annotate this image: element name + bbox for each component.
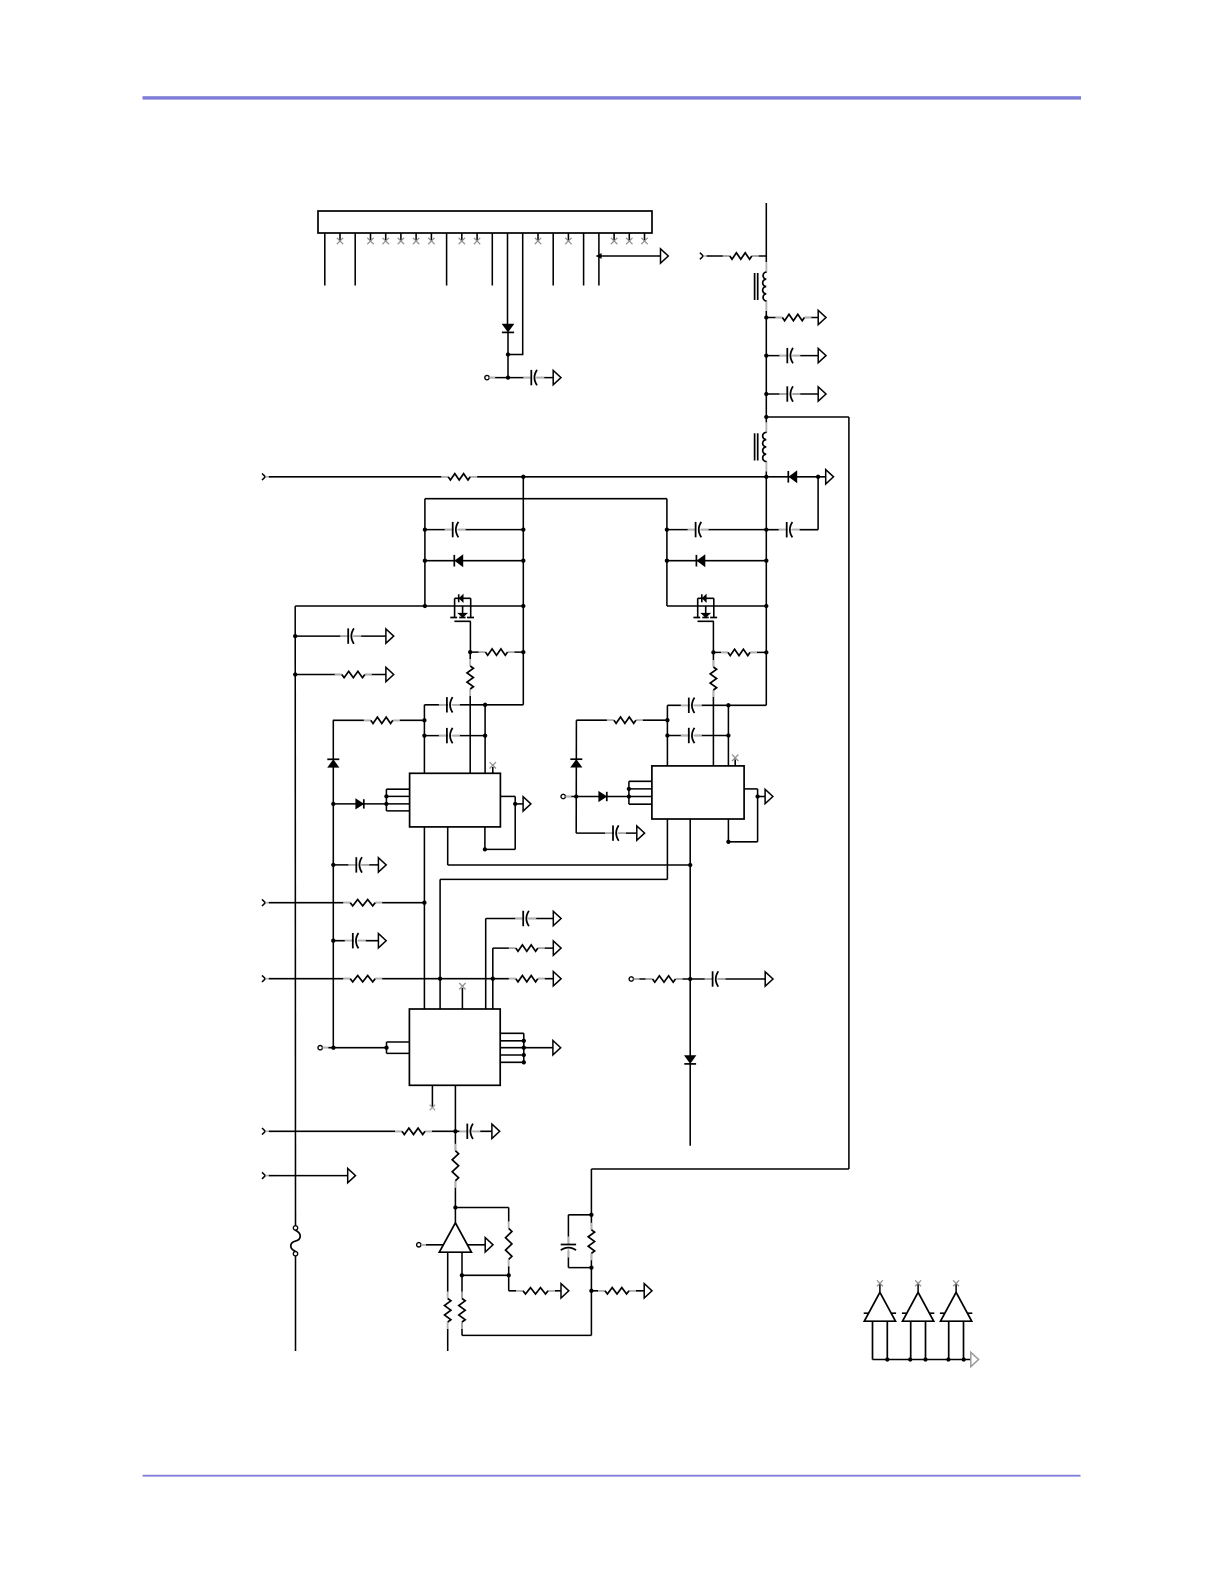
- wire IN3 row: [269, 902, 425, 904]
- pin 6 (no connect): [400, 233, 402, 241]
- resistor R16: [509, 944, 545, 953]
- resistor R14: [509, 974, 545, 983]
- node C5 a: [423, 527, 427, 531]
- pin 13: [507, 233, 509, 324]
- left rail lower: [295, 1256, 297, 1351]
- capacitor C18: [688, 521, 709, 538]
- wire opamp leg1: [447, 1252, 449, 1351]
- U3 nc pin stub: [461, 988, 463, 1009]
- node C12: [293, 634, 297, 638]
- port arrow A22: [485, 1238, 493, 1252]
- node rail-417: [764, 415, 768, 419]
- resistor R17: [451, 1144, 460, 1188]
- pin 21 (no connect): [628, 233, 630, 241]
- node feed2: [574, 794, 578, 798]
- controller U3: [409, 1009, 500, 1085]
- wire R5 column: [469, 652, 471, 773]
- wire opamp in: [421, 1244, 444, 1246]
- node C18 b: [764, 527, 768, 531]
- resistor R13: [343, 974, 382, 983]
- resistor R18: [504, 1221, 513, 1266]
- pin 17 (no connect): [567, 233, 569, 241]
- pin 19: [598, 233, 600, 286]
- node C18 a: [665, 527, 669, 531]
- left rail upper: [294, 606, 296, 1226]
- pin 16: [552, 233, 554, 286]
- node L1 out a: [764, 315, 768, 319]
- inductor L1: [755, 262, 768, 311]
- wire IN1 row: [269, 476, 767, 478]
- main rail VIN: [765, 203, 767, 705]
- node IN4/492: [491, 977, 495, 981]
- node Q2 right: [764, 604, 768, 608]
- diode D2: [788, 471, 796, 483]
- wire cap rowB right: [667, 735, 728, 737]
- node 591 b: [589, 1265, 593, 1269]
- wire R4 row: [470, 651, 523, 653]
- input port IN2: [700, 253, 711, 260]
- pin 14: [522, 233, 524, 355]
- pin 2 (no connect): [339, 233, 341, 241]
- wire R7 row: [576, 719, 667, 721]
- port arrow A19: [553, 941, 561, 955]
- resistor R7: [607, 716, 643, 725]
- node D8 b: [764, 559, 768, 563]
- diode D3: [454, 555, 462, 567]
- node IN5/455: [453, 1129, 457, 1133]
- node D2 out: [816, 475, 820, 479]
- U3 right pins: [500, 1033, 553, 1062]
- resistor R8: [721, 648, 757, 657]
- capacitor C12: [340, 628, 361, 645]
- wire pin14 joins pin13: [508, 354, 523, 356]
- wire Q2 gate: [712, 621, 714, 652]
- pin 15 x-mark: [535, 238, 541, 244]
- node C14: [331, 939, 335, 943]
- capacitor C1: [523, 369, 544, 386]
- transistor Q2: [693, 594, 717, 621]
- wire diode D3 row: [425, 560, 523, 562]
- resistor R20: [443, 1292, 452, 1330]
- node IN4/440: [438, 977, 442, 981]
- node C9 out: [726, 733, 730, 737]
- capacitor C11: [705, 970, 726, 987]
- pin 8 (no connect): [430, 233, 432, 241]
- input port IN6: [262, 1172, 273, 1179]
- capacitor C7: [439, 727, 460, 744]
- wire v591: [590, 1169, 592, 1335]
- wire cap rowB left: [424, 735, 485, 737]
- footer rule: [143, 1475, 1081, 1477]
- wire v424: [423, 705, 425, 774]
- port arrow A5: [818, 387, 826, 401]
- wire cap C18 row: [667, 529, 766, 531]
- wire v493: [492, 948, 494, 1009]
- wire C12 row: [295, 635, 386, 637]
- port arrow A16: [492, 1124, 500, 1138]
- resistor R3: [775, 313, 811, 322]
- node C5 b: [521, 527, 525, 531]
- U1 nc pin stub: [492, 767, 494, 773]
- wire R19 row: [509, 1290, 561, 1292]
- port arrow A24: [971, 1352, 979, 1366]
- pin 1: [324, 233, 326, 286]
- node gate2: [711, 650, 715, 654]
- left cell right rail: [522, 477, 524, 705]
- node link/690: [688, 863, 692, 867]
- resistor R15: [395, 1127, 432, 1136]
- capacitor C10: [605, 825, 626, 842]
- resistor R4: [479, 648, 515, 657]
- pin 3: [354, 233, 356, 286]
- capacitor C17: [560, 1237, 577, 1258]
- wire R8 row: [713, 651, 766, 653]
- U1 nc x-mark: [490, 762, 496, 768]
- wire opamp out: [467, 1244, 485, 1246]
- wire IN6 row: [269, 1175, 348, 1177]
- pin 4 x-mark: [367, 238, 373, 244]
- terminal P3: [629, 977, 639, 981]
- U3 bottom stub: [431, 1085, 433, 1108]
- wire U2 bottom pin b: [689, 819, 691, 1146]
- port arrow A4: [818, 348, 826, 362]
- port arrow A6: [826, 470, 834, 484]
- capacitor C3: [779, 385, 800, 402]
- node U1 pin2: [384, 794, 388, 798]
- wire cap rowA right: [667, 704, 766, 706]
- node C1: [506, 375, 510, 379]
- node Q1 right: [521, 604, 525, 608]
- jumper wiggle: [291, 1230, 300, 1251]
- wire C13 row: [333, 864, 378, 866]
- wire R3 row: [766, 317, 818, 319]
- diode D4: [356, 799, 364, 808]
- wire v486: [485, 919, 487, 1010]
- right vertical bus: [848, 417, 850, 1169]
- wire U3 feed: [322, 1047, 386, 1049]
- wire R6 row: [333, 719, 425, 721]
- pin 22 (no connect): [644, 233, 646, 241]
- node C9 in: [665, 733, 669, 737]
- wire cap C1 to arrow: [535, 377, 553, 379]
- node U3 rpin: [522, 1046, 526, 1050]
- capacitor C13: [348, 856, 369, 873]
- port arrow A10: [765, 972, 773, 986]
- wire C14 row: [333, 940, 378, 942]
- pin 2 x-mark: [337, 238, 343, 244]
- node R6 out: [422, 718, 426, 722]
- pin 11 (no connect): [476, 233, 478, 241]
- capacitor C4: [779, 521, 800, 538]
- diode D7: [684, 1056, 696, 1064]
- node U3 rpin: [522, 1053, 526, 1057]
- wire P3 row: [634, 978, 766, 980]
- node C13: [331, 863, 335, 867]
- zener D6: [570, 759, 582, 767]
- node U3 rpin: [522, 1060, 526, 1064]
- node 591 a: [589, 1213, 593, 1217]
- capacitor C16: [515, 910, 536, 927]
- wire R11 row: [295, 674, 386, 676]
- wire opamp leg2: [461, 1252, 463, 1335]
- wire R18 column: [508, 1208, 510, 1291]
- node U3 bracket: [384, 1046, 388, 1050]
- port arrow A11: [386, 629, 394, 643]
- pin 4 (no connect): [370, 233, 372, 241]
- node R4 out: [521, 650, 525, 654]
- wire bottom link: [462, 1334, 591, 1336]
- node R18 out: [507, 1273, 511, 1277]
- wire U2 feed: [565, 796, 629, 798]
- port arrow A15: [553, 972, 561, 986]
- U3 nc x-mark: [459, 983, 465, 989]
- node bus: [908, 1357, 912, 1361]
- port arrow VOUT1: [553, 370, 561, 384]
- port arrow A8: [637, 826, 645, 840]
- U1 right pin loop: [485, 796, 523, 849]
- node D3 b: [521, 559, 525, 563]
- node D3 a: [423, 559, 427, 563]
- U2 nc x-mark: [732, 755, 738, 761]
- node L1 out c: [764, 392, 768, 396]
- wire U3 to opamp: [454, 1085, 456, 1223]
- wire C16 row: [486, 918, 554, 920]
- node 591 c: [589, 1289, 593, 1293]
- U2 left pins: [629, 781, 652, 804]
- wire IN5 row: [269, 1130, 456, 1132]
- wire zener1 column: [332, 720, 334, 1047]
- pin 8 x-mark: [428, 238, 434, 244]
- wire buffer bus: [873, 1359, 971, 1361]
- node bus: [946, 1357, 950, 1361]
- node Q1 left: [423, 604, 427, 608]
- zener D9: [327, 759, 339, 767]
- U3 left pins: [387, 1042, 410, 1053]
- port arrow A3: [818, 310, 826, 324]
- inductor L2: [755, 422, 768, 471]
- wire IN2 to rail: [707, 255, 767, 257]
- U3 stub end mark: [430, 1105, 436, 1111]
- wire bottom of right bus: [591, 1168, 849, 1170]
- pin 10 (no connect): [461, 233, 463, 241]
- node C7 in: [422, 733, 426, 737]
- pin 17 x-mark: [565, 238, 571, 244]
- terminal J2 bottom: [293, 1252, 297, 1256]
- wire-entry arrowhead at pin 19: [597, 254, 602, 258]
- wire pin19 to arrow: [599, 255, 661, 257]
- wire U1 feed: [333, 803, 386, 805]
- port arrow A18: [553, 911, 561, 925]
- capacitor C14: [345, 932, 366, 949]
- node U3 feed rail: [331, 1046, 335, 1050]
- wire v667: [666, 705, 668, 766]
- port arrow A14: [378, 934, 386, 948]
- resistor R21: [457, 1292, 466, 1330]
- port arrow A17: [348, 1168, 356, 1182]
- node fb link: [460, 1273, 464, 1277]
- port arrow A12: [386, 667, 394, 681]
- wire cap C4 row: [766, 529, 818, 531]
- node R7 out: [665, 718, 669, 722]
- node R11: [293, 672, 297, 676]
- resistor R22: [587, 1223, 596, 1261]
- wire R23 row: [591, 1290, 644, 1292]
- gate driver U1: [410, 773, 501, 827]
- wire C3 row: [766, 393, 818, 395]
- pin 5 (no connect): [385, 233, 387, 241]
- capacitor C8: [681, 697, 702, 714]
- node IN3/424: [422, 901, 426, 905]
- node feed1: [331, 802, 335, 806]
- wire phase link: [440, 878, 667, 880]
- pin 10 x-mark: [459, 238, 465, 244]
- wire v485: [484, 705, 486, 774]
- node U2 out: [755, 794, 759, 798]
- terminal P1: [485, 375, 495, 379]
- port arrow OUT19: [661, 249, 669, 263]
- wire diode D8 row: [667, 560, 766, 562]
- wire bootstrap link: [448, 864, 691, 866]
- input port IN5: [262, 1128, 273, 1135]
- U2 right pin loop: [728, 789, 765, 842]
- wire to right bus: [766, 416, 849, 418]
- wire IN4 row: [269, 978, 554, 980]
- capacitor C17 branch: [568, 1215, 591, 1268]
- wire Q1 drain row: [295, 605, 523, 607]
- pin 12: [491, 233, 493, 286]
- wire D2 node down: [817, 477, 819, 530]
- resistor R11: [335, 670, 372, 679]
- terminal P2: [561, 794, 571, 798]
- diode D8: [696, 555, 704, 567]
- wire Q2 drain row: [667, 605, 766, 607]
- node comp: [453, 1205, 457, 1209]
- capacitor C15: [459, 1123, 480, 1140]
- node bus: [962, 1357, 966, 1361]
- U2 nc pin stub: [734, 760, 736, 766]
- wire U1 bottom pin a: [423, 827, 425, 1009]
- resistor R23: [598, 1286, 636, 1295]
- pin 21 x-mark: [626, 238, 632, 244]
- header rule: [143, 96, 1082, 99]
- zener D1: [502, 324, 514, 332]
- wire pin13 below diode: [507, 333, 509, 378]
- wire Q1 gate: [469, 621, 471, 652]
- terminal J2 top: [293, 1226, 297, 1230]
- wire R16 row: [493, 947, 554, 949]
- terminal P4: [318, 1046, 328, 1050]
- pin 20 x-mark: [611, 238, 617, 244]
- resistor R12: [343, 898, 382, 907]
- op-amp U4: [439, 1223, 471, 1252]
- node U1 out: [513, 802, 517, 806]
- pin 7 x-mark: [413, 238, 419, 244]
- diode D5: [599, 792, 607, 801]
- wire diode D2 row: [766, 476, 825, 478]
- right cell left rail: [666, 499, 668, 606]
- buffer B3: [940, 1280, 972, 1359]
- node R8 out: [764, 650, 768, 654]
- capacitor C5: [445, 521, 466, 538]
- connector J1: [318, 211, 652, 233]
- pin 7 (no connect): [415, 233, 417, 241]
- resistor R5: [466, 659, 475, 696]
- left cell left rail: [424, 499, 426, 606]
- node L1 out b: [764, 353, 768, 357]
- wire R9 column: [712, 652, 714, 766]
- resistor R6: [364, 716, 400, 725]
- node U1 pin3: [384, 802, 388, 806]
- node bus: [923, 1357, 927, 1361]
- capacitor C2: [779, 347, 800, 364]
- node rail-476: [764, 475, 768, 479]
- node C8 out: [726, 703, 730, 707]
- input port IN3: [262, 899, 273, 906]
- resistor R2: [723, 251, 759, 260]
- gate driver U2: [652, 766, 744, 819]
- wire top link: [425, 498, 667, 500]
- capacitor C6: [439, 696, 460, 713]
- node U2 pin3: [627, 794, 631, 798]
- buffer B1: [864, 1280, 896, 1359]
- node U2 pin2: [627, 787, 631, 791]
- node D8 a: [665, 559, 669, 563]
- node 690/979: [688, 977, 692, 981]
- wire v728: [727, 705, 729, 766]
- port arrow A23: [644, 1284, 652, 1298]
- wire cap C5 row: [425, 529, 523, 531]
- node C7 out: [483, 733, 487, 737]
- buffer B2: [902, 1280, 934, 1359]
- pin 11 x-mark: [474, 238, 480, 244]
- port arrow A21: [561, 1284, 569, 1298]
- wire C10 row: [576, 832, 637, 834]
- terminal P5: [417, 1243, 426, 1247]
- pin 18: [583, 233, 585, 286]
- port arrow A7: [523, 797, 531, 811]
- wire C15 row: [455, 1130, 492, 1132]
- node R1/rail-left: [521, 475, 525, 479]
- input port IN1: [262, 474, 273, 481]
- wire U2 bottom pin a: [666, 819, 668, 879]
- capacitor C9: [681, 727, 702, 744]
- port arrow A20: [553, 1041, 561, 1055]
- pin 6 x-mark: [398, 238, 404, 244]
- node gate1: [468, 650, 472, 654]
- port arrow A13: [378, 858, 386, 872]
- node pin13/pin14: [506, 352, 510, 356]
- pin 15 (no connect): [537, 233, 539, 241]
- wire zener2 column: [575, 720, 577, 833]
- wire cap rowA left: [424, 704, 523, 706]
- U1 left pins: [386, 789, 409, 811]
- pin 9: [446, 233, 448, 286]
- resistor R1: [441, 472, 477, 481]
- wire v440: [439, 879, 441, 1009]
- resistor R10: [646, 974, 683, 983]
- wire C2 row: [766, 355, 818, 357]
- wire U1 bottom pin b: [447, 827, 449, 865]
- wire fb link: [462, 1274, 509, 1276]
- wire node to VCC cap row: [489, 377, 531, 379]
- wire comp to R18: [455, 1207, 508, 1209]
- pin 20 (no connect): [613, 233, 615, 241]
- node bus: [885, 1357, 889, 1361]
- resistor R19: [516, 1286, 555, 1295]
- input port IN4: [262, 975, 273, 982]
- transistor Q1: [450, 594, 474, 621]
- port arrow A9: [765, 789, 773, 803]
